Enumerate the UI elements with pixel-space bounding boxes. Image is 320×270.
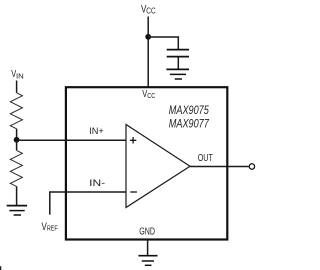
edge artifact mark (bottom-left) bbox=[0, 266, 1, 270]
wire to bypass capacitor bbox=[148, 37, 178, 49]
wire VREF to IN- bbox=[50, 192, 126, 215]
svg-text:CC: CC bbox=[146, 7, 156, 16]
resistor R2 bbox=[10, 140, 22, 205]
resistor R1 bbox=[10, 93, 22, 129]
svg-text:MAX9075: MAX9075 bbox=[169, 103, 209, 117]
svg-text:CC: CC bbox=[147, 91, 156, 100]
wire GND stem bbox=[147, 240, 149, 255]
reference label VREF bbox=[42, 221, 59, 233]
wire VCC vertical bbox=[147, 17, 149, 88]
minus sign (IN-) bbox=[130, 191, 137, 193]
input label VIN bbox=[11, 68, 24, 81]
svg-text:GND: GND bbox=[139, 227, 155, 238]
svg-text:IN-: IN- bbox=[89, 178, 105, 188]
op-amp comparator triangle bbox=[126, 125, 190, 208]
wire VIN to R1 bbox=[16, 81, 18, 93]
svg-text:IN: IN bbox=[16, 72, 24, 81]
junction dot on VCC bbox=[145, 34, 151, 40]
capacitor C1 bbox=[167, 50, 189, 70]
ground (GND) bbox=[138, 256, 157, 266]
svg-text:MAX9077: MAX9077 bbox=[169, 117, 210, 131]
output terminal bbox=[249, 164, 254, 169]
plus sign (IN+) bbox=[130, 137, 136, 143]
ground (R2) bbox=[7, 206, 27, 215]
svg-text:OUT: OUT bbox=[198, 153, 213, 164]
wire R1 to node bbox=[16, 129, 18, 141]
power label VCC (top) bbox=[141, 4, 156, 16]
IC box U1 bbox=[66, 87, 227, 239]
pin label VCC (inside box) bbox=[142, 88, 156, 100]
svg-text:IN+: IN+ bbox=[89, 126, 104, 136]
wire OUT bbox=[190, 166, 249, 168]
ground (capacitor) bbox=[166, 69, 189, 79]
svg-text:REF: REF bbox=[47, 224, 58, 233]
node junction dot bbox=[14, 137, 20, 143]
wire IN+ bbox=[17, 139, 126, 141]
